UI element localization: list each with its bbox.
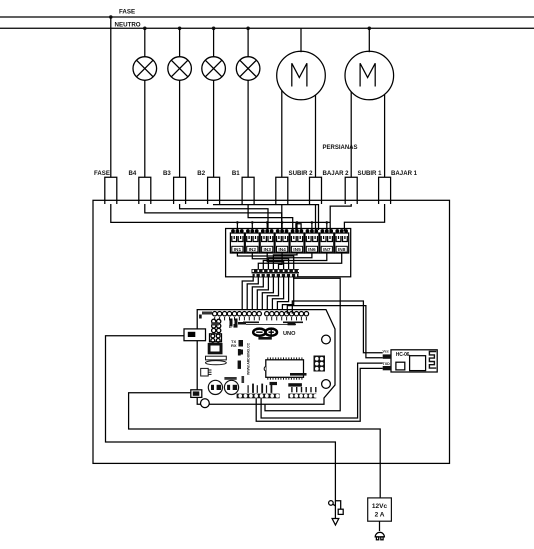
- junction FASE bus at relay K6: [311, 221, 314, 224]
- svg-text:IN8: IN8: [338, 247, 346, 253]
- svg-text:IN7: IN7: [323, 247, 331, 253]
- wire FASE stub to relay K5: [296, 222, 298, 230]
- wire net SUBIR2 to relay K4: [281, 204, 283, 230]
- svg-text:NEUTRO: NEUTRO: [115, 22, 141, 29]
- IC ATmega328 U3: [264, 357, 303, 379]
- svg-text:IN4: IN4: [278, 247, 286, 253]
- wire lamp B1 top stem: [247, 28, 249, 57]
- wire motor M2 leg x=384.6: [384, 94, 386, 177]
- wire relay IN1 to arduino digital pin: [242, 277, 253, 314]
- arduino power pin labels: [248, 373, 317, 393]
- svg-text:B4: B4: [129, 170, 137, 177]
- wire net B2 to relay K6: [214, 204, 319, 230]
- svg-text:RX: RX: [231, 343, 237, 348]
- svg-text:IN6: IN6: [308, 247, 316, 253]
- wire net BAJAR1 to relay K8: [344, 204, 384, 231]
- arduino mounting hole: [322, 380, 331, 389]
- enclosure box: [93, 200, 450, 463]
- arduino POWER header: [237, 394, 280, 399]
- wire net B4 to relay K4: [145, 204, 282, 230]
- junction lamp B4 on NEUTRO: [143, 27, 147, 31]
- wire relay IN9 to arduino digital pin: [282, 277, 293, 314]
- terminal B3: [174, 177, 186, 204]
- junction FASE bus at relay K3: [266, 221, 269, 224]
- svg-text:TXD: TXD: [383, 362, 391, 366]
- svg-text:B2: B2: [197, 170, 205, 177]
- wire relay IN6 to arduino digital pin: [267, 277, 278, 314]
- svg-text:HC-06: HC-06: [396, 352, 410, 358]
- terminal B4: [139, 177, 151, 204]
- arduino logo text: [258, 337, 271, 340]
- wire net SUBIR1 to relay K7: [330, 204, 351, 231]
- power supply 12V 2A: [368, 498, 392, 521]
- wire HC-06 Vcc to arduino: [292, 301, 382, 353]
- svg-text:12Vc: 12Vc: [372, 503, 388, 510]
- relay K7: [320, 229, 334, 253]
- junction FASE bus at relay K2: [251, 221, 254, 224]
- svg-text:2 A: 2 A: [375, 512, 385, 519]
- capacitor C2: [224, 380, 238, 394]
- terminal B2: [208, 177, 220, 204]
- arduino "made in italy" text: [202, 312, 212, 315]
- mains plug: [375, 532, 384, 540]
- arduino power jack: [191, 390, 202, 398]
- lamp B4: [133, 57, 157, 81]
- arduino reset header: [210, 334, 222, 343]
- motor M1: [277, 51, 326, 100]
- relay K3: [260, 229, 274, 253]
- arduino mounting hole: [201, 399, 210, 408]
- junction on FASE line: [109, 15, 113, 19]
- wire relay IN5 to arduino digital pin: [262, 277, 273, 314]
- svg-text:FASE: FASE: [119, 9, 135, 16]
- wire relay IN7 to arduino digital pin: [272, 277, 283, 314]
- wire net B3 to relay K3: [180, 204, 268, 230]
- wire relay K2 coil to header pin: [252, 253, 288, 269]
- wire lamp B3 bottom stem: [179, 80, 181, 177]
- relay K6: [305, 229, 319, 253]
- svg-text:SUBIR 2: SUBIR 2: [289, 170, 314, 177]
- svg-text:BAJAR 2: BAJAR 2: [323, 170, 350, 177]
- wire lamp B2 top stem: [213, 28, 215, 57]
- relay module control header: [252, 269, 300, 277]
- wire arduino USB to plug: [106, 336, 336, 519]
- svg-text:L: L: [229, 324, 232, 329]
- wire motor M1 leg x=281.8: [281, 90, 283, 177]
- wire FASE stub to relay K7: [326, 222, 328, 230]
- arduino silk rule under pins: [246, 323, 296, 325]
- arduino ICSP label: [238, 349, 241, 369]
- wire 12V supply to mains plug: [379, 521, 381, 531]
- junction lamp B1 on NEUTRO: [246, 27, 250, 31]
- arduino RESET label: [242, 376, 245, 383]
- arduino ANALOG IN header: [288, 394, 317, 399]
- wire relay K1 coil to header pin: [237, 253, 293, 269]
- arduino ICSP2 header: [212, 319, 221, 332]
- svg-text:FASE: FASE: [94, 170, 110, 177]
- wire HC-06 TXD to arduino RX: [261, 363, 383, 418]
- arduino PWRIN label: [224, 377, 236, 380]
- relay K1: [230, 229, 244, 253]
- wire relay K8 coil to header pin: [258, 253, 341, 269]
- wire FASE stub to relay K6: [311, 222, 313, 230]
- wire net FASE bus to relay commons: [111, 204, 330, 222]
- arduino L led and smd parts: [229, 319, 246, 329]
- wire arduino power jack to 12V supply: [129, 393, 381, 498]
- HC-06 pin RXD: [383, 366, 391, 370]
- svg-text:IN1: IN1: [234, 247, 242, 253]
- svg-text:IN2: IN2: [249, 247, 257, 253]
- wire HC-06 RXD to arduino TX: [256, 368, 383, 421]
- junction FASE bus at relay K4: [281, 221, 284, 224]
- terminal BAJAR2: [310, 177, 322, 204]
- wire NEUTRO line: [0, 27, 534, 29]
- wire relay K6 coil to header pin: [268, 253, 312, 269]
- svg-text:PERSIANAS: PERSIANAS: [323, 145, 358, 151]
- svg-text:BAJAR 1: BAJAR 1: [391, 170, 418, 177]
- wire relay IN8 to arduino digital pin: [277, 277, 288, 314]
- wire relay IN4 to arduino digital pin: [257, 277, 268, 314]
- junction FASE bus at relay K1: [236, 221, 239, 224]
- wire relay K4 coil to header pin: [279, 253, 283, 269]
- module HC-06: [391, 350, 437, 372]
- junction FASE bus at relay K7: [326, 221, 329, 224]
- arduino USB connector: [184, 329, 206, 341]
- lamp B2: [202, 57, 226, 81]
- USB plug connector: [329, 501, 344, 525]
- wire FASE stub to relay K4: [281, 222, 283, 230]
- terminal B1: [242, 177, 254, 204]
- wire relay K3 coil to header pin: [267, 253, 283, 269]
- wire relay IN2 to arduino digital pin: [247, 277, 258, 314]
- HC-06 pin GND: [383, 354, 391, 358]
- wire relay VCC to arduino 5V: [265, 277, 340, 411]
- relay module board: [226, 229, 351, 277]
- wire motor M2 top stem: [368, 28, 370, 52]
- junction lamp B2 on NEUTRO: [212, 27, 216, 31]
- junction FASE bus at relay K5: [296, 221, 299, 224]
- svg-text:SUBIR 1: SUBIR 1: [358, 170, 383, 177]
- arduino ICSP header: [314, 356, 326, 372]
- wire relay K7 coil to header pin: [263, 253, 327, 269]
- wire net BAJAR2 to relay K6: [315, 204, 317, 230]
- arduino voltage regulator: [206, 343, 227, 365]
- wire lamp B1 bottom stem: [247, 80, 249, 177]
- arduino UNO board outline: [197, 310, 335, 405]
- wire lamp B4 bottom stem: [144, 80, 146, 177]
- terminal FASE: [105, 177, 117, 204]
- arduino digital pin header circles: [213, 312, 309, 316]
- terminal SUBIR2: [276, 177, 288, 204]
- wire net B1 to relay K5: [248, 204, 293, 230]
- arduino pin labels smudge: [214, 317, 307, 323]
- wire relay IN3 to arduino digital pin: [252, 277, 263, 314]
- terminal SUBIR1: [345, 177, 357, 204]
- arduino logo: [253, 329, 277, 336]
- junction lamp B3 on NEUTRO: [178, 27, 182, 31]
- motor M2: [345, 51, 394, 100]
- svg-text:Vcc: Vcc: [383, 350, 389, 354]
- wire FASE stub to relay K2: [251, 222, 253, 230]
- arduino TX RX labels: [231, 339, 243, 355]
- terminal BAJAR1: [379, 177, 391, 204]
- wire lamp B4 top stem: [144, 28, 146, 57]
- arduino mounting hole: [322, 335, 331, 344]
- relay K2: [245, 229, 259, 253]
- svg-text:B1: B1: [232, 170, 240, 177]
- lamp B3: [168, 57, 192, 81]
- lamp B1: [236, 57, 260, 81]
- relay K4: [275, 229, 289, 253]
- capacitor C1: [208, 380, 222, 394]
- svg-text:UNO: UNO: [283, 331, 296, 337]
- junction motor M2 on NEUTRO: [368, 27, 372, 31]
- svg-text:IN5: IN5: [293, 247, 301, 253]
- wire relay K5 coil to header pin: [273, 253, 297, 269]
- arduino reset button: [201, 368, 212, 376]
- relay K5: [290, 229, 304, 253]
- wire FASE stub to relay K3: [266, 222, 268, 230]
- wire lamp B3 top stem: [179, 28, 181, 57]
- svg-text:IN3: IN3: [263, 247, 271, 253]
- wire motor M1 top stem: [300, 28, 302, 52]
- wire lamp B2 bottom stem: [213, 80, 215, 177]
- wire motor M2 leg x=351.2: [350, 92, 352, 178]
- wire FASE line: [0, 16, 534, 18]
- wire FASE stub to relay K1: [236, 222, 238, 230]
- wire jog at relay K5: [296, 224, 301, 230]
- relay K8: [335, 229, 349, 253]
- wire FASE feed down to terminal: [110, 17, 112, 177]
- svg-text:WWW.ARDUINO.CC: WWW.ARDUINO.CC: [247, 342, 251, 375]
- svg-text:B3: B3: [163, 170, 171, 177]
- wire HC-06 GND to arduino: [287, 306, 382, 358]
- wire motor M1 leg x=315.5: [315, 95, 317, 177]
